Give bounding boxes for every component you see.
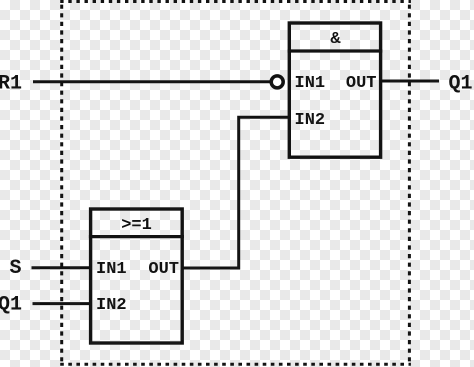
wire Q1 output xyxy=(381,80,440,83)
inverter bubble at IN1 of AND gate xyxy=(271,76,283,88)
OR gate U2 box xyxy=(91,209,183,343)
dashed function-block boundary bottom edge xyxy=(60,363,411,366)
svg-text:S: S xyxy=(10,257,22,280)
svg-text:Q1: Q1 xyxy=(0,293,22,316)
AND gate U1 box xyxy=(289,23,380,157)
svg-text:R1: R1 xyxy=(0,73,22,96)
svg-text:>=1: >=1 xyxy=(121,216,152,235)
svg-text:&: & xyxy=(330,30,341,49)
dashed function-block boundary left edge xyxy=(60,5,63,363)
svg-text:Q1: Q1 xyxy=(449,73,473,96)
dashed function-block boundary top edge xyxy=(60,0,411,3)
dashed function-block boundary right edge xyxy=(408,5,411,363)
svg-text:OUT: OUT xyxy=(148,260,179,279)
svg-text:IN2: IN2 xyxy=(295,111,326,130)
wire S input xyxy=(32,266,93,269)
svg-text:IN2: IN2 xyxy=(96,296,127,315)
svg-text:OUT: OUT xyxy=(346,74,377,93)
AND gate header divider xyxy=(288,49,383,52)
svg-text:IN1: IN1 xyxy=(96,260,127,279)
wire Q1 feedback input xyxy=(33,302,93,305)
svg-text:IN1: IN1 xyxy=(295,74,326,93)
wire R1 input xyxy=(33,80,271,83)
wire OR OUT to AND IN2 xyxy=(183,117,288,268)
OR gate header divider xyxy=(89,235,184,238)
